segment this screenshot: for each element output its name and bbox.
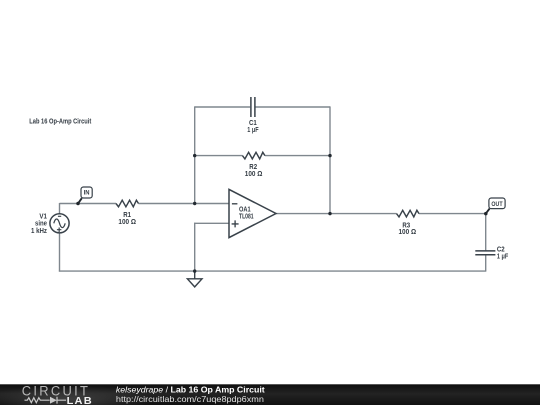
label R3 (399, 222, 417, 236)
wire top feedback right segment (255, 106, 330, 108)
svg-text:OUT: OUT (491, 201, 502, 208)
node inverting input (193, 202, 196, 205)
node output / feedback (328, 212, 331, 215)
ground (187, 271, 202, 287)
svg-text:1 kHz: 1 kHz (31, 228, 47, 235)
node feedback-left / R2 (193, 154, 196, 157)
wire feedback left vertical (194, 106, 196, 203)
wire input left segment (60, 203, 117, 205)
svg-text:sine: sine (35, 221, 47, 228)
resistor R2 (242, 152, 265, 159)
resistor R3 (397, 210, 420, 217)
junction node dots (193, 154, 332, 273)
capacitor C2 (475, 251, 495, 255)
label R2 (245, 164, 263, 178)
svg-text:IN: IN (84, 190, 90, 197)
wire op-amp plus input horizontal (194, 222, 229, 224)
wire input right segment (139, 203, 230, 205)
resistor R1 (116, 200, 139, 207)
wire OUT vertical above C2 (485, 214, 487, 251)
wire top feedback left segment (195, 106, 251, 108)
svg-text:Lab 16 Op-Amp Circuit: Lab 16 Op-Amp Circuit (29, 116, 91, 125)
svg-text:C2: C2 (497, 246, 505, 253)
label C2 (497, 246, 508, 260)
svg-text:1 μF: 1 μF (497, 254, 508, 261)
wire feedback right vertical (329, 106, 331, 213)
svg-text:100 Ω: 100 Ω (245, 171, 263, 178)
svg-text:R1: R1 (123, 212, 131, 219)
node ground rail (193, 269, 196, 272)
wire bottom rail (59, 270, 486, 272)
wire OUT vertical below C2 (485, 255, 487, 271)
logo diode (50, 397, 57, 404)
svg-text:V1: V1 (39, 214, 47, 221)
wire V1 top stub (59, 203, 61, 214)
wire output left segment (276, 213, 397, 215)
svg-text:LAB: LAB (67, 396, 93, 405)
footer bar (0, 384, 540, 405)
logo schematic squiggle (25, 397, 67, 404)
svg-text:http://circuitlab.com/c7uqe8pd: http://circuitlab.com/c7uqe8pdp6xmn (116, 395, 264, 404)
wire R2 row left segment (195, 155, 243, 157)
label C1 (247, 120, 258, 134)
svg-text:100 Ω: 100 Ω (399, 229, 417, 236)
node feedback-right / R2 (328, 154, 331, 157)
wire op-amp plus input vertical (194, 223, 196, 271)
svg-text:R2: R2 (249, 164, 257, 171)
capacitor C1 (251, 97, 255, 117)
svg-text:1 μF: 1 μF (247, 127, 258, 134)
wire R2 row right segment (265, 155, 330, 157)
label R1 (118, 212, 136, 226)
flag OUT (484, 198, 505, 215)
wire V1 bottom stub (59, 233, 61, 272)
voltage source V1 (31, 214, 69, 235)
flag IN (76, 187, 92, 205)
wire output right segment (419, 213, 486, 215)
svg-text:100 Ω: 100 Ω (118, 219, 136, 226)
svg-text:TL081: TL081 (239, 213, 254, 220)
op-amp OA1 (229, 189, 276, 237)
svg-text:kelseydrape / Lab 16 Op Amp Ci: kelseydrape / Lab 16 Op Amp Circuit (116, 386, 265, 395)
